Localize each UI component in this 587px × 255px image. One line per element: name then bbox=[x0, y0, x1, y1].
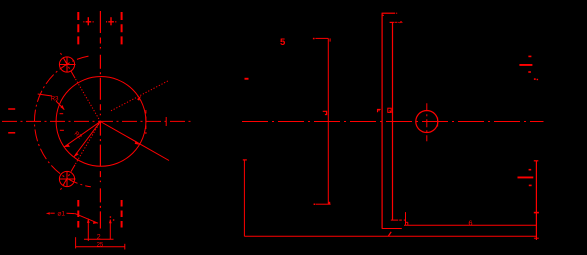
radius dim lower-left wedge line 1 bbox=[64, 122, 100, 148]
svg-text:R3: R3 bbox=[51, 97, 59, 103]
bore projection dash lower bbox=[8, 132, 15, 134]
top hidden line left bbox=[77, 12, 79, 46]
bolt hole bottom-left bbox=[59, 171, 74, 186]
bottom dimension line 2 bbox=[244, 235, 536, 237]
arrowhead keyway leader bbox=[46, 212, 50, 214]
vertical centerline left view bbox=[99, 11, 101, 229]
svg-text:25: 25 bbox=[97, 242, 104, 248]
oblique tick on dim2 bbox=[388, 232, 391, 236]
bottom tick of D bbox=[534, 237, 539, 239]
extension line C bbox=[405, 212, 407, 225]
dotted radial to bolt 1 bbox=[75, 78, 100, 121]
rotated text B bbox=[388, 108, 391, 112]
circle E vertical centerline bbox=[426, 103, 428, 141]
position symbol right bbox=[106, 17, 116, 25]
arrowhead R wedge 2 bbox=[74, 153, 79, 157]
large vertical dimension top tick bbox=[315, 37, 328, 39]
bolt hole bottom-left radial centerline bbox=[59, 165, 75, 193]
svg-text:6: 6 bbox=[468, 219, 472, 228]
svg-text:⌀1: ⌀1 bbox=[58, 211, 66, 218]
dim2 hub width line bbox=[76, 246, 125, 248]
corner blob big dim bottom bbox=[329, 202, 331, 204]
radius dim upper-left leader bbox=[38, 94, 52, 96]
bottom dimension line 1 bbox=[404, 224, 536, 226]
solid circle quadrant tick right bbox=[145, 110, 147, 134]
bolt hole top-left bbox=[59, 57, 74, 72]
text stack upper right: tick bbox=[528, 56, 531, 58]
text stack upper right: dash bbox=[528, 71, 531, 73]
radial line -30deg bbox=[100, 122, 169, 161]
corner bracket C bbox=[406, 221, 408, 223]
solid circle quadrant tick left bbox=[60, 113, 64, 115]
slash tick on D bbox=[534, 212, 539, 214]
large vertical dimension bottom tick bbox=[316, 203, 331, 205]
bolt hole top-left radial centerline bbox=[60, 52, 75, 78]
arrowhead R upper leader bbox=[60, 105, 64, 110]
bolt circle dash-dot arc bbox=[34, 56, 90, 187]
text stack lower right: dash bbox=[529, 169, 532, 171]
bolt hole bottom-left crosshair bbox=[59, 178, 76, 180]
dim2 extension left bbox=[75, 237, 77, 248]
bore projection dash upper bbox=[8, 108, 15, 110]
rotated dim text glyph bbox=[323, 111, 327, 114]
side view top edge B bbox=[390, 21, 394, 23]
top hidden line right bbox=[121, 12, 123, 46]
bolt circle tick right fragment bbox=[165, 117, 167, 126]
dim line B bottom bbox=[391, 219, 398, 221]
dim2 extension right bbox=[124, 244, 126, 250]
extension line left of dim2 bbox=[243, 160, 245, 236]
text stack upper right: bar bbox=[519, 64, 532, 66]
svg-text:5: 5 bbox=[280, 37, 286, 48]
dot above dim1 arrow bbox=[110, 216, 111, 218]
dim1 extension left bbox=[87, 219, 89, 241]
text stack upper right: dots bbox=[534, 78, 536, 80]
arrowhead R wedge 1 bbox=[64, 144, 70, 147]
side view top edge A bbox=[382, 12, 395, 14]
arrowhead keyway diagonal end bbox=[93, 221, 98, 224]
radius dim lower-left wedge line 2 bbox=[74, 122, 101, 158]
arrowhead dim1 up bbox=[109, 219, 112, 223]
top tick of D bbox=[534, 160, 539, 162]
circle E right tick bbox=[437, 118, 439, 127]
horizontal centerline right view bbox=[242, 121, 544, 123]
keyway leader line bbox=[67, 212, 75, 214]
horizontal centerline left view bbox=[2, 120, 193, 122]
dot bottom tick big dim bbox=[314, 204, 316, 206]
small dash middle bbox=[245, 78, 249, 80]
keyway leader diagonal bbox=[75, 214, 98, 224]
top tick of left extension bbox=[243, 159, 247, 161]
dot right of dim1 arrow bbox=[113, 219, 114, 220]
side view edge A bbox=[381, 13, 383, 228]
section hole circle E bbox=[416, 111, 438, 133]
text stack lower right: bar bbox=[518, 177, 534, 179]
dotted radial to bolt 2 bbox=[75, 122, 100, 165]
solid circle bbox=[56, 77, 146, 167]
keyway leader dash bbox=[50, 212, 54, 214]
bottom hidden line left bbox=[77, 200, 79, 229]
arrowhead 28deg at circle crossing bbox=[137, 96, 141, 101]
dim line A bottom bbox=[382, 228, 402, 230]
bolt hole top-left crosshair bbox=[59, 64, 76, 66]
radial dotted line 28deg bbox=[111, 81, 168, 111]
svg-text:2: 2 bbox=[97, 234, 101, 241]
text stack lower right: dash2 bbox=[529, 185, 532, 187]
large vertical dimension line bbox=[327, 38, 329, 204]
arrowhead dim1 up left bbox=[87, 219, 90, 223]
extension line right D bbox=[535, 161, 537, 241]
position symbol left bbox=[83, 17, 93, 25]
dim1 keyway width line bbox=[84, 238, 114, 240]
bottom hidden line right bbox=[121, 200, 123, 229]
arrowhead -30deg at circle crossing bbox=[135, 141, 140, 145]
rotated text A bbox=[378, 109, 381, 112]
dim1 extension right bbox=[109, 220, 111, 240]
dot top tick big dim bbox=[313, 38, 315, 40]
side view edge B bbox=[392, 22, 394, 220]
